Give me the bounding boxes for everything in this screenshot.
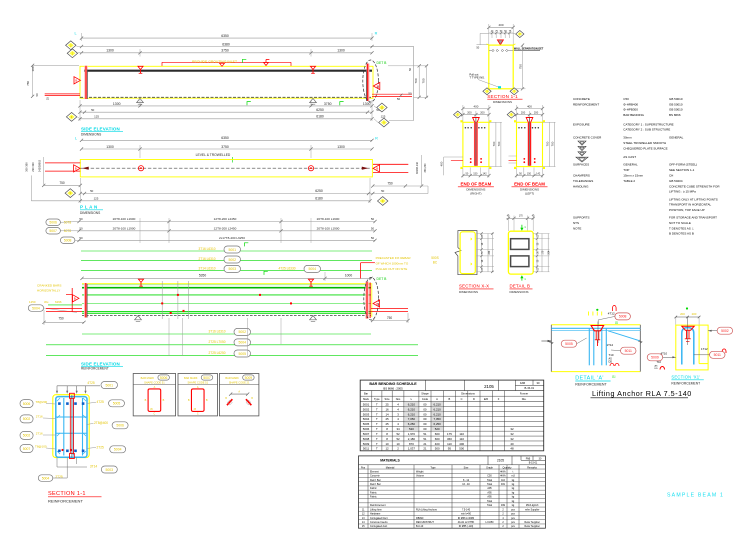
sx1 u-bar cyan [682,328,694,365]
svg-text:48: 48 [510,447,514,451]
svg-text:TRANSPORT IN HORIZONTAL: TRANSPORT IN HORIZONTAL [669,203,712,207]
svg-text:T: T [376,417,378,421]
sxx inner hooks [471,238,472,240]
beam B1 plan view group [25,136,429,215]
eob corner marks yellow [460,120,462,122]
bar mark diamond bottom-left [66,112,76,121]
beam3 right end bar [365,282,368,319]
svg-text:499: 499 [501,504,506,507]
svg-text:5350: 5350 [199,274,207,278]
svg-text:T: T [376,407,378,411]
svg-text:3750: 3750 [221,49,229,53]
svg-text:SECTION X-X: SECTION X-X [459,284,489,289]
svg-text:3T14 L6310: 3T14 L6310 [198,266,215,270]
svg-text:1300: 1300 [337,49,345,53]
svg-text:2T25 L6250: 2T25 L6250 [208,351,225,355]
plan marker triangle right [373,165,380,172]
svg-text:6180: 6180 [315,197,323,201]
svg-text:END OF BEAM: END OF BEAM [461,182,492,187]
svg-text:12: 12 [385,447,389,451]
right projecting bars (red) [372,93,412,95]
svg-text:142/38602: 142/38602 [37,159,41,172]
svg-text:32: 32 [510,427,514,431]
svg-text:TABLE 2: TABLE 2 [623,179,635,183]
svg-text:5002: 5002 [363,407,370,411]
svg-text:25: 25 [385,417,389,421]
eob bar dots [465,127,467,129]
dimension 6380 [82,46,373,48]
top bar dots [58,402,61,405]
bbs row 5009 [360,445,544,447]
eob 700 dims [549,122,551,166]
svg-text:50: 50 [90,189,94,193]
s11 section outline [489,45,513,89]
svg-text:50: 50 [91,108,95,112]
svg-text:BAR BENDING SCHEDULE: BAR BENDING SCHEDULE [369,382,417,386]
svg-text:51: 51 [423,432,427,436]
svg-text:25: 25 [385,422,389,426]
svg-text:25: 25 [46,97,50,100]
eob corner marks yellow [514,120,516,122]
da oval 5005 left [561,340,577,347]
svg-text:B: B [449,397,451,401]
db blockout 2 [511,256,529,267]
svg-text:5001: 5001 [363,403,370,407]
bottom red dots [61,449,63,451]
svg-text:Φ-HRB400: Φ-HRB400 [623,102,638,106]
eob dim 400 [463,108,489,110]
svg-text:5004: 5004 [114,448,122,452]
beam1 bottom dim row A [80,105,372,107]
svg-text:20T8-100 L1900: 20T8-100 L1900 [113,217,136,221]
svg-text:4T12: 4T12 [608,312,615,316]
svg-text:L: L [75,137,77,141]
svg-text:CRANKED BARS: CRANKED BARS [37,284,61,288]
svg-text:6296: 6296 [55,300,62,304]
stirrup row 3 line [79,239,375,241]
svg-text:500: 500 [435,447,440,451]
svg-text:NOT TO SCALE: NOT TO SCALE [669,221,691,225]
svg-text:Dimensions: Dimensions [461,392,475,396]
svg-text:6,250: 6,250 [408,422,416,426]
svg-text:GENERAL: GENERAL [623,162,638,166]
svg-text:700: 700 [546,141,550,146]
svg-text:2T16: 2T16 [36,415,43,419]
svg-text:5005: 5005 [565,342,573,346]
svg-text:GB 50204: GB 50204 [669,179,683,183]
svg-text:Element: Element [370,470,379,473]
beam3 detail ellipse [364,277,379,320]
green lifting point mark [243,59,247,63]
bar mark diamond D1 [77,46,82,48]
svg-text:5004: 5004 [238,341,246,345]
svg-text:00: 00 [423,417,427,421]
db green arrow bottom [521,277,523,281]
svg-text:GB 50010: GB 50010 [669,102,683,106]
svg-text:C: C [461,397,463,401]
svg-text:DET B: DET B [377,61,388,65]
svg-text:T10: T10 [657,360,662,364]
svg-text:6,210: 6,210 [434,412,442,416]
svg-text:OF WHICH 1000mm TO: OF WHICH 1000mm TO [376,262,409,266]
bbs row 5007 [360,435,544,437]
inner vertical bars [63,398,65,456]
svg-text:WALL SEPARATION DET: WALL SEPARATION DET [514,47,544,50]
plan left projecting bars [45,162,80,164]
svg-text:T: T [376,427,378,431]
left height dims [33,64,79,66]
svg-text:PULLED OUT ON SITE: PULLED OUT ON SITE [376,267,408,271]
svg-text:500S: 500S [431,256,438,260]
beam3 marker triangle left [73,295,80,302]
svg-text:200: 200 [521,111,526,115]
svg-text:50: 50 [371,227,375,231]
beam3 support triangles [135,316,142,320]
finish symbols triangles [578,141,586,145]
s11 cyan insert mark [498,86,501,88]
svg-text:T8@100: T8@100 [35,445,47,449]
svg-text:TOLERANCES: TOLERANCES [573,179,593,183]
svg-text:Refer Supplier: Refer Supplier [525,525,540,528]
svg-text:5009: 5009 [363,442,370,446]
svg-text:50: 50 [371,217,375,221]
svg-text:Lifting Item: Lifting Item [370,508,382,511]
beam1 bottom dim row B [80,111,372,113]
support triangle right [310,98,317,102]
eob anchor [526,118,533,123]
svg-text:41x21 x2.0THK: 41x21 x2.0THK [458,521,475,524]
svg-text:Dia.: Dia. [522,397,527,401]
svg-text:BC: BC [433,261,438,265]
dimension 6350 top [82,37,373,39]
svg-text:1300: 1300 [106,49,114,53]
section 1-1 dimensions group [469,23,543,104]
svg-text:Fabric: Fabric [370,487,377,490]
sxx dim column [481,234,483,273]
beam elevation reinforcement group [28,243,411,325]
svg-text:1,037: 1,037 [408,447,416,451]
svg-text:HANDLING: HANDLING [573,184,589,188]
svg-text:SURFACES: SURFACES [573,162,589,166]
beam3 750 dims [44,321,84,323]
svg-text:150: 150 [527,172,532,175]
da break marks [550,341,554,344]
svg-text:200: 200 [692,312,697,316]
svg-text:DIMENSIONS: DIMENSIONS [510,290,529,294]
svg-text:PRECASTED FIX REBAR: PRECASTED FIX REBAR [376,256,412,260]
svg-text:CHAMFERS: CHAMFERS [573,173,590,177]
s11 dim 400 [489,26,513,28]
svg-text:LEVEL & TROWELLED: LEVEL & TROWELLED [196,153,231,157]
svg-text:520: 520 [409,427,414,431]
svg-text:B-15-01: B-15-01 [529,462,538,465]
beam 1 left end plate (red) [84,66,87,99]
svg-text:870: 870 [409,442,414,446]
bar mark diamond bottom-right2 [379,118,389,127]
da left dim arrow [541,340,551,342]
svg-text:CONCRETE: CONCRETE [573,97,590,101]
svg-text:6,210: 6,210 [408,407,416,411]
bottom callouts [56,458,58,467]
svg-text:SHAPE CODE 51: SHAPE CODE 51 [187,381,208,385]
svg-text:290 390: 290 390 [31,162,35,172]
svg-text:T: T [376,422,378,426]
svg-text:82166.142: 82166.142 [416,161,419,173]
svg-text:50: 50 [79,236,83,240]
svg-text:DIMENSIONS: DIMENSIONS [493,100,512,104]
svg-text:2T16 L6310: 2T16 L6310 [198,257,215,261]
svg-text:CATEGORY 2 : SUB STRUCTURE: CATEGORY 2 : SUB STRUCTURE [623,128,670,132]
eob diamond [454,111,462,118]
beam3 anchor marks red dots [177,294,179,296]
svg-text:5004: 5004 [42,476,50,480]
svg-text:300 360: 300 360 [25,162,29,172]
svg-text:5002: 5002 [23,417,31,421]
svg-text:5006: 5006 [160,376,168,380]
svg-text:1,970: 1,970 [408,432,416,436]
svg-text:T TYPE INS.: T TYPE INS. [469,76,485,80]
svg-text:(RIGHT): (RIGHT) [470,192,481,196]
svg-text:TOP: TOP [623,168,629,172]
svg-text:1300: 1300 [337,145,345,149]
svg-text:2T16: 2T16 [36,431,43,435]
bar callout rows below elevation [46,318,418,357]
stirrup row 1 line [79,221,375,223]
beam3 marker triangle right [373,300,380,307]
svg-text:Corrugated duct: Corrugated duct [370,525,387,528]
beam3 bar line faint top [82,284,371,286]
grout inlet leader [221,62,223,65]
svg-text:50: 50 [79,227,83,231]
svg-text:5008: 5008 [619,315,627,319]
svg-text:110: 110 [447,442,452,446]
svg-text:5011: 5011 [625,349,632,353]
svg-text:125: 125 [94,115,99,119]
svg-text:200: 200 [467,111,472,115]
svg-text:110: 110 [501,479,505,482]
svg-text:BS 8666 : 2005: BS 8666 : 2005 [383,387,403,391]
svg-text:R: R [375,32,378,36]
svg-text:Reinforcement: Reinforcement [370,504,386,507]
svg-text:5006: 5006 [363,427,370,431]
svg-text:95: 95 [448,447,452,451]
svg-text:5002: 5002 [721,329,729,333]
svg-text:DIMENSIONS: DIMENSIONS [80,211,100,215]
svg-text:5009: 5009 [651,356,659,360]
section x-x group [431,231,494,294]
svg-text:21: 21 [423,447,427,451]
svg-text:6180: 6180 [316,115,324,119]
svg-text:2105: 2105 [484,384,494,389]
small green marks above beam [264,271,268,275]
svg-text:SUPPORTS: SUPPORTS [573,216,589,220]
svg-text:5006: 5006 [23,402,31,406]
beam 1 bottom dashed line [80,96,372,98]
svg-text:AS CAST: AS CAST [623,155,636,159]
svg-text:min b=90: min b=90 [461,513,472,516]
eob dim 400 [517,108,543,110]
svg-text:5008: 5008 [363,437,370,441]
s11 left bracket [480,32,489,34]
svg-text:5002: 5002 [23,434,31,438]
eob 700 dims [495,122,497,166]
svg-text:700: 700 [551,141,555,146]
lifting anchor in section (red) [70,393,75,398]
svg-text:5005: 5005 [113,402,121,406]
svg-text:30u: 30u [44,300,49,304]
svg-text:#N/A kg/m3: #N/A kg/m3 [526,504,539,507]
bar row top 1 [81,250,372,252]
db top dims [506,217,534,219]
svg-text:2T25 L7050: 2T25 L7050 [208,340,225,344]
svg-text:#N/A: #N/A [500,475,506,478]
svg-text:750: 750 [387,181,393,185]
section 1-1 reinforcement group [20,381,128,503]
eob outline [463,122,489,166]
svg-text:5007: 5007 [363,432,370,436]
bar mark oval 5008 [60,237,75,244]
svg-text:50: 50 [79,217,83,221]
svg-text:34: 34 [396,427,400,431]
svg-text:3T14: 3T14 [90,464,97,468]
shape box 5007 [178,374,218,416]
svg-text:2T25: 2T25 [97,446,104,450]
svg-text:DET B: DET B [377,277,388,281]
svg-text:LIFTING : ≥ 15 MPa: LIFTING : ≥ 15 MPa [669,190,696,194]
shape box 5009 [219,374,259,416]
svg-text:50: 50 [408,68,412,71]
svg-text:HORIZONTALLY: HORIZONTALLY [37,289,60,293]
extension verticals below beam [168,318,170,356]
svg-text:SIDE ELEVATION: SIDE ELEVATION [81,126,120,131]
svg-text:BAR MARK: BAR MARK [141,376,155,380]
svg-text:20T8-100 L1900: 20T8-100 L1900 [317,217,340,221]
db green arrow top [521,225,523,230]
svg-text:T8@200: T8@200 [36,400,48,404]
stirrup light blue [56,397,87,458]
svg-text:Reinf. Bar: Reinf. Bar [370,479,381,482]
svg-text:4T25 L6330: 4T25 L6330 [278,266,295,270]
svg-text:(LEFT): (LEFT) [525,192,534,196]
eob dims 200 200 [517,114,543,116]
da oval 5011 [621,347,637,354]
eob bar dots [518,127,520,129]
bottom bar dots [58,450,61,453]
bar row bottom 3 [46,355,418,357]
plan bottom dims 750 left [44,184,81,186]
svg-text:51: 51 [423,437,427,441]
plan dim 6350 [82,139,373,141]
bbs row 5004 [360,420,544,422]
eob red dots bottom [470,158,472,160]
bbs row 5005 [360,425,544,427]
shape box 5006 [133,374,175,416]
svg-text:20T8-100 L1900: 20T8-100 L1900 [317,227,340,231]
svg-text:25: 25 [385,403,389,407]
da box: yellow top/bottom, gray sides [551,324,640,326]
svg-text:P L A N: P L A N [80,205,98,210]
svg-text:NOTE: NOTE [573,226,581,230]
svg-text:DIMENSIONS: DIMENSIONS [459,290,478,294]
svg-text:750: 750 [58,317,64,321]
bbs row 5001 [360,406,544,408]
svg-text:FAB: FAB [520,381,525,385]
marker triangle right [373,82,380,89]
eob anchor [473,118,480,123]
svg-text:1000: 1000 [345,274,353,278]
bar mark oval 5006 [46,219,61,226]
cranked bars bracket [66,294,72,296]
svg-text:Concrete Inserts: Concrete Inserts [370,521,388,524]
svg-text:ID Ø66 L=4080: ID Ø66 L=4080 [458,517,475,520]
svg-text:GB 50010: GB 50010 [669,97,683,101]
svg-text:Corrugated Duct: Corrugated Duct [370,517,388,520]
beam plan outline (yellow) [80,160,372,177]
eob outline [517,122,543,166]
inner horizontal links [57,416,87,418]
svg-text:5006: 5006 [116,424,124,428]
svg-text:5009: 5009 [245,376,253,380]
svg-text:SECTION 1-1: SECTION 1-1 [48,491,86,497]
beam3 bar line 3 [82,294,371,296]
svg-text:Total: Total [487,504,493,507]
svg-text:Reinf. Bar: Reinf. Bar [370,483,381,486]
svg-text:00: 00 [423,407,427,411]
svg-text:BAR BENDING: BAR BENDING [623,113,644,117]
bar row bottom 2 [46,344,418,346]
svg-text:5004: 5004 [308,267,316,271]
svg-text:7.5-140: 7.5-140 [462,508,471,511]
svg-text:B: B [376,167,378,171]
s11 bar dots row [492,49,494,51]
svg-text:Total: Total [487,479,493,482]
plan marker triangle left [74,165,81,172]
svg-text:REINFORCEMENT: REINFORCEMENT [81,367,109,371]
left projecting bars (red) [45,93,80,95]
svg-text:[1]: [1] [612,375,616,379]
da diagonal bar [608,331,639,341]
svg-text:SHAPE CODE 21: SHAPE CODE 21 [229,381,250,385]
svg-text:Refer Supplier: Refer Supplier [525,521,540,524]
svg-text:B: B [376,302,378,306]
svg-text:E/R: E/R [484,397,488,401]
svg-text:7,050: 7,050 [434,417,442,421]
plan end arrows red [82,167,89,170]
svg-text:21: 21 [423,442,427,446]
sxx black frame with break line [455,231,477,275]
diamond plan bottom-right [377,197,387,206]
svg-text:700: 700 [421,78,425,83]
svg-text:T DENOTES AS ⊥: T DENOTES AS ⊥ [669,226,695,230]
svg-text:BAR MARK: BAR MARK [225,376,239,380]
sx1 green mark [686,307,688,309]
svg-text:150: 150 [473,172,478,175]
svg-text:CONCRETE CUBE STRENGTH FOR: CONCRETE CUBE STRENGTH FOR [669,184,720,188]
svg-text:6,210: 6,210 [434,407,442,411]
svg-text:REINFORCEMENT: REINFORCEMENT [671,381,700,385]
svg-text:Mark: Mark [363,397,369,401]
grouting inlet note [161,62,163,66]
svg-text:T: T [376,403,378,407]
svg-text:7,050: 7,050 [408,417,416,421]
s11 yellow diamond [516,31,524,38]
materials table [359,456,546,528]
svg-text:B: B [75,79,77,83]
svg-text:A: A [436,397,438,401]
svg-text:A95: A95 [487,487,492,490]
left callouts [20,400,33,408]
s11 750 dim right [522,45,524,89]
